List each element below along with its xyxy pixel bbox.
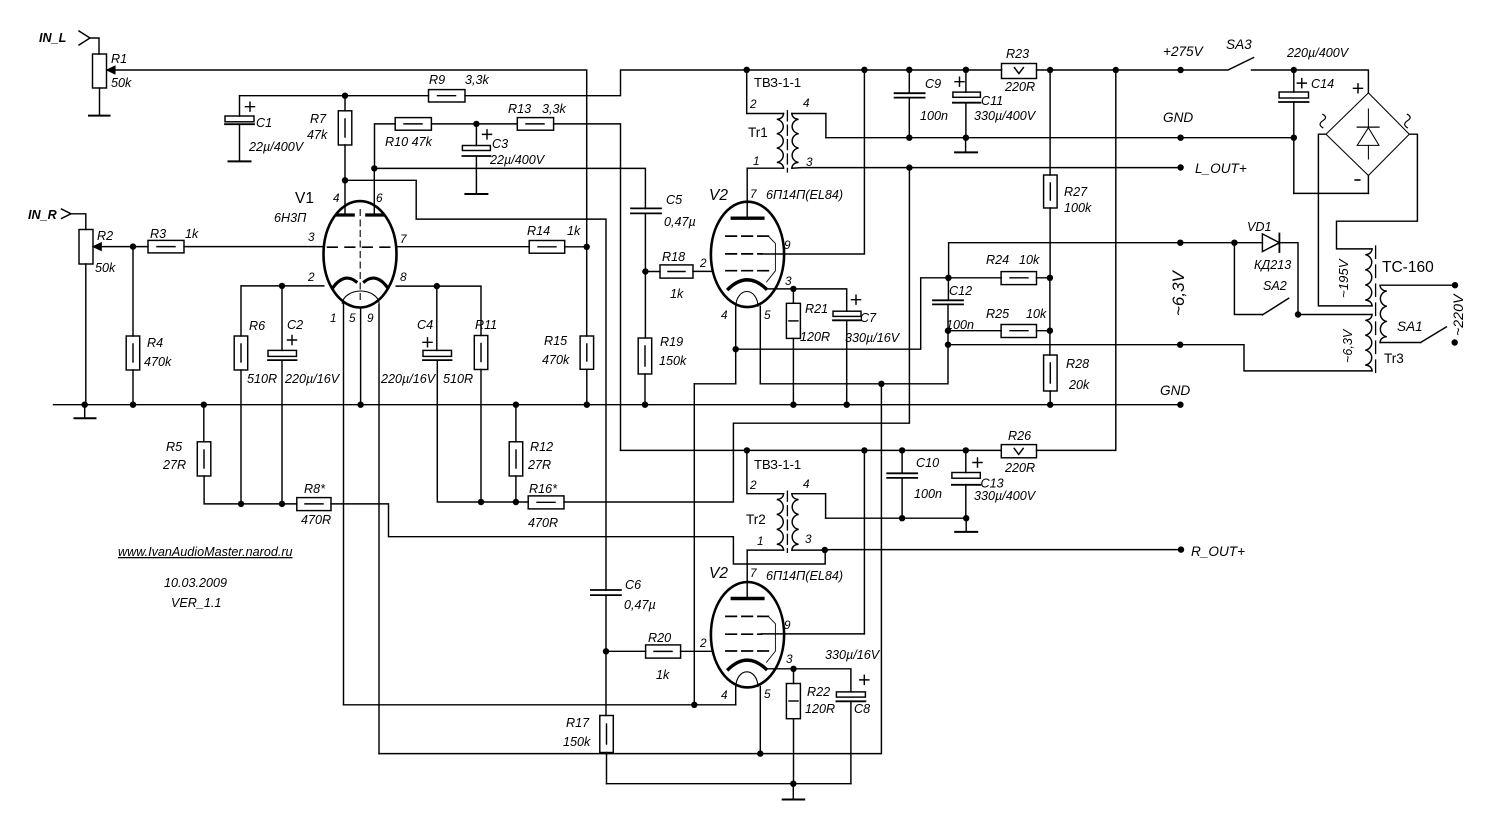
Tr1 pin3 lead L_OUT line: [792, 167, 1181, 170]
node R18 left / C5: [642, 268, 648, 274]
node C2 top: [279, 283, 285, 289]
wire R5 bottom to feedback line: [204, 476, 297, 504]
wire C10 leads: [901, 450, 903, 518]
wire bridge AC1 down to Tr3: [1318, 134, 1372, 306]
node gndline GND terminal: [1177, 135, 1183, 141]
svg-text:20k: 20k: [1068, 378, 1090, 392]
wire V1 pin9 heater down: [378, 305, 380, 754]
svg-text:R20: R20: [648, 631, 671, 645]
svg-text:220R: 220R: [1004, 80, 1035, 94]
svg-text:R23: R23: [1006, 47, 1029, 61]
wire C14 leads: [1293, 70, 1295, 193]
node rail C14: [1291, 67, 1297, 73]
svg-text:R16*: R16*: [529, 482, 558, 496]
node heater riser: [878, 381, 884, 387]
node SA1 top terminal: [1452, 282, 1458, 288]
svg-text:4: 4: [721, 308, 728, 322]
svg-text:0,47µ: 0,47µ: [624, 598, 656, 612]
svg-text:6П14П(EL84): 6П14П(EL84): [766, 569, 843, 583]
node rail +275V terminal: [1177, 67, 1183, 73]
resistor R10: [395, 118, 431, 131]
capacitor C4 (electrolytic): [423, 350, 452, 356]
svg-text:510R: 510R: [247, 372, 277, 386]
svg-text:27R: 27R: [527, 458, 551, 472]
node rail C9: [906, 67, 912, 73]
resistor R5: [203, 405, 205, 442]
svg-text:V2: V2: [709, 565, 728, 582]
wire R13 right down to Tr2 supply line: [554, 124, 621, 451]
Tr3 core dashed: [1375, 246, 1377, 374]
V2 lower beam plate line: [767, 616, 776, 662]
node heater bottom line left: [945, 342, 951, 348]
svg-text:510R: 510R: [443, 372, 473, 386]
heater wire pin5 segment right: [760, 345, 948, 384]
node Tr2 pin3 feedback: [822, 547, 828, 553]
wire heater column down to V1 pin1 line: [693, 384, 695, 705]
svg-text:~220V: ~220V: [1451, 293, 1467, 336]
ground below C1: [229, 160, 251, 162]
V2 lower pin5 heater lead: [759, 687, 761, 754]
node bus R5: [201, 402, 207, 408]
node bus R15: [584, 402, 590, 408]
svg-text:C8: C8: [854, 702, 870, 716]
svg-text:R27: R27: [1064, 185, 1088, 199]
svg-text:R2: R2: [97, 229, 113, 243]
svg-text:2: 2: [749, 478, 757, 492]
Tr2 secondary coil: [792, 494, 799, 550]
svg-text:R22: R22: [807, 685, 830, 699]
wire R7 bottom node jog to C6 column: [345, 145, 606, 590]
wire IN_R to R2 top: [71, 214, 86, 230]
svg-text:3: 3: [805, 532, 812, 546]
node bus GND terminal: [1177, 402, 1183, 408]
svg-text:GND: GND: [1163, 110, 1193, 125]
ground symbol left end of bus: [84, 405, 86, 418]
resistor R25: [1001, 325, 1036, 338]
svg-text:R11: R11: [475, 318, 497, 332]
svg-text:4: 4: [333, 191, 340, 205]
svg-text:10k: 10k: [1026, 307, 1047, 321]
node rail pin9 riser: [861, 67, 867, 73]
V2 lower anode bar: [732, 597, 763, 600]
node R20 left / C6: [603, 648, 609, 654]
node heater bottom terminal: [1177, 342, 1183, 348]
bridge rectifier diamond: [1326, 93, 1409, 176]
resistor R27: [1049, 70, 1051, 175]
V2 upper anode lead to Tr1 pin1: [746, 168, 748, 218]
input connector IN_R: [62, 209, 72, 219]
ground below C3: [465, 193, 487, 195]
svg-text:C10: C10: [916, 456, 939, 470]
capacitor C8 (electrolytic): [836, 692, 865, 697]
bridge minus stem: [1367, 176, 1369, 194]
svg-text:1k: 1k: [567, 224, 581, 238]
V1 cathode arc left: [333, 278, 356, 287]
svg-text:1k: 1k: [656, 668, 670, 682]
ground symbol bottom center: [792, 784, 794, 799]
svg-text:1k: 1k: [185, 227, 199, 241]
wire R2 wiper to R3 with R4 tap: [94, 246, 149, 248]
node feedback R11: [478, 499, 484, 505]
resistor R6: [234, 336, 248, 370]
Tr2 core dashed: [786, 491, 788, 552]
svg-text:4: 4: [721, 688, 728, 702]
node bus R19: [642, 402, 648, 408]
resistor R22: [793, 669, 795, 684]
Tr1 pin4 lead to GND line: [792, 114, 826, 138]
node R25 left: [945, 328, 951, 334]
capacitor C14 (electrolytic): [1279, 92, 1308, 98]
node bus C7: [844, 402, 850, 408]
heater line V1 pin1 to V2 lower pin4: [344, 704, 736, 706]
resistor R28: [1044, 355, 1058, 391]
wire Tr3 primary bottom to SA1: [1380, 342, 1421, 344]
resistor R14: [529, 241, 565, 254]
svg-text:Tr2: Tr2: [746, 512, 766, 527]
wire R19 bottom to bus: [644, 374, 646, 405]
node ground R22: [790, 781, 796, 787]
wire R12 bottom to R16 line: [515, 476, 517, 502]
svg-text:3,3k: 3,3k: [542, 102, 567, 116]
Tr1 primary coil: [777, 114, 784, 169]
wire R22 bottom to ground line: [793, 719, 795, 784]
wire R17 bottom to bottom ground line: [606, 753, 608, 784]
svg-text:50k: 50k: [111, 76, 132, 90]
V2 upper cathode arc: [728, 280, 766, 289]
Tr2 primary coil: [777, 494, 784, 550]
wire R18 right to V2 grid: [693, 270, 711, 272]
svg-text:+275V: +275V: [1163, 44, 1205, 59]
capacitor C10: [887, 472, 917, 474]
node rail R27: [1047, 67, 1053, 73]
resistor R21: [792, 289, 794, 303]
wire R1 wiper line to x586 vertical down to R15: [107, 70, 587, 336]
svg-text:0,47µ: 0,47µ: [664, 215, 696, 229]
svg-text:150k: 150k: [659, 354, 687, 368]
svg-text:R_OUT+: R_OUT+: [1191, 544, 1245, 559]
switch SA2: [1234, 243, 1262, 315]
pentode V2 lower envelope: [711, 582, 784, 687]
svg-text:50k: 50k: [95, 261, 116, 275]
wire R7 top to supply node: [344, 96, 346, 111]
svg-text:V1: V1: [295, 190, 314, 207]
svg-text:R21: R21: [805, 302, 828, 316]
V2 upper cathode pin3 wire to R21/C7: [766, 289, 847, 311]
node R24 right: [1047, 275, 1053, 281]
svg-text:6П14П(EL84): 6П14П(EL84): [766, 188, 843, 202]
node rail C11: [963, 67, 969, 73]
node C3 top: [473, 121, 479, 127]
svg-text:5: 5: [764, 308, 771, 322]
bottom ground line R17/R22/C8: [607, 783, 851, 785]
svg-text:100n: 100n: [914, 487, 942, 501]
node feedback C2: [279, 501, 285, 507]
svg-text:7: 7: [400, 232, 407, 246]
svg-text:330µ/400V: 330µ/400V: [974, 109, 1037, 123]
svg-text:R13: R13: [508, 102, 531, 116]
svg-text:470R: 470R: [528, 516, 558, 530]
Tr3 HV winding 195V: [1365, 249, 1372, 306]
resistor R15: [580, 336, 594, 369]
wire R28 bottom to bus: [1049, 391, 1051, 405]
svg-text:10k: 10k: [1019, 253, 1040, 267]
wire R4 bottom to bus: [132, 370, 134, 405]
svg-text:R7: R7: [310, 112, 327, 126]
svg-text:2: 2: [699, 256, 707, 270]
svg-text:120R: 120R: [800, 330, 830, 344]
svg-text:L_OUT+: L_OUT+: [1195, 161, 1247, 176]
svg-text:2: 2: [749, 97, 757, 111]
svg-text:C9: C9: [925, 77, 941, 91]
V2 lower anode lead: [746, 550, 748, 598]
V2 lower screen pin9 riser: [863, 450, 865, 634]
svg-text:9: 9: [784, 238, 791, 252]
V2 upper pin4 heater lead: [735, 306, 737, 383]
wire R18 left to C5 column: [645, 271, 660, 273]
svg-text:470k: 470k: [542, 353, 570, 367]
node L_OUT junction: [906, 164, 912, 170]
Tr1 pin1 lead to V2 anode: [747, 167, 783, 169]
V2 lower grid rows dashed: [726, 615, 768, 617]
wire C11 leads: [965, 70, 967, 138]
bridge AC mark left: [1320, 114, 1326, 128]
node heater line V2 lower pin4: [691, 702, 697, 708]
svg-text:ТС-160: ТС-160: [1382, 259, 1434, 276]
svg-text:R28: R28: [1066, 357, 1089, 371]
svg-text:3: 3: [786, 652, 793, 666]
wire Tr3 primary top to 220V terminal: [1380, 284, 1455, 286]
wire R2 bottom to ground bus: [85, 264, 87, 405]
svg-text:C6: C6: [625, 578, 641, 592]
svg-text:C11: C11: [981, 94, 1003, 108]
svg-text:GND: GND: [1160, 383, 1190, 398]
node C4 top: [434, 283, 440, 289]
wire SA2 to Tr3 6.3V top: [1298, 314, 1372, 316]
V2 lower cathode pin3 wire to R22/C8: [766, 669, 851, 692]
Tr2 ground return line: [826, 517, 967, 519]
node SA2 drop: [1231, 240, 1237, 246]
V2 upper grid rows dashed: [726, 235, 768, 237]
Tr3 heater winding 6.3V: [1365, 315, 1372, 371]
svg-text:5: 5: [764, 687, 771, 701]
node C13 bottom: [963, 515, 969, 521]
svg-text:~195V: ~195V: [1336, 258, 1351, 298]
resistor R26: [1001, 445, 1036, 458]
svg-text:100n: 100n: [946, 318, 974, 332]
GND line top: [826, 137, 1294, 139]
svg-text:2: 2: [307, 270, 315, 284]
node gndline C9: [906, 135, 912, 141]
node Tr2 line pin9: [861, 447, 867, 453]
wire C5 bottom to R18 node to R19: [644, 213, 646, 338]
node L_OUT terminal: [1177, 164, 1183, 170]
node R14 right: [584, 244, 590, 250]
node R10 left / pin6: [371, 165, 377, 171]
svg-text:КД213: КД213: [1254, 258, 1291, 272]
svg-text:1k: 1k: [670, 287, 684, 301]
wire V1 pin1 heater down: [343, 304, 345, 705]
wire C9 leads: [908, 70, 910, 138]
wire IN_L to R1 top: [90, 38, 99, 54]
svg-text:C5: C5: [666, 193, 683, 207]
ground below R1: [89, 115, 110, 117]
wire R21 bottom to bus: [792, 338, 794, 404]
wire R11 bottom to R16 line: [480, 370, 482, 503]
heater line V1 pin9 to riser: [379, 384, 881, 754]
wire V1 pin7 to R14: [396, 246, 529, 248]
node bus R12: [513, 402, 519, 408]
resistor R20: [606, 650, 646, 652]
wire R15 bottom to bus: [586, 369, 588, 404]
wire C7 bottom to bus: [846, 320, 848, 404]
svg-text:4: 4: [803, 96, 810, 110]
node SA2 right: [1295, 311, 1301, 317]
Tr2 pin2 lead: [747, 450, 784, 493]
input connector IN_L: [79, 31, 90, 45]
svg-text:C14: C14: [1311, 77, 1334, 91]
svg-text:C3: C3: [492, 137, 508, 151]
svg-text:330µ/16V: 330µ/16V: [825, 648, 881, 662]
svg-text:8: 8: [400, 270, 407, 284]
resistor R23: [1002, 64, 1037, 79]
svg-text:R9: R9: [429, 73, 445, 87]
svg-text:ТВЗ-1-1: ТВЗ-1-1: [754, 75, 801, 90]
ground below C13: [965, 518, 967, 531]
svg-text:R1: R1: [111, 52, 127, 66]
V2 lower cathode arc: [728, 660, 766, 669]
resistor R4: [132, 247, 134, 336]
node R24 left: [945, 275, 951, 281]
wire R6 top to pin2 line: [241, 286, 324, 336]
V2 lower heater arc: [736, 672, 758, 687]
wire bridge AC2 down to Tr3: [1337, 134, 1418, 249]
V2 upper pin5 heater lead: [759, 306, 761, 384]
svg-text:~6,3V: ~6,3V: [1341, 328, 1355, 363]
V1 heater arc: [342, 291, 379, 303]
resistor R17: [600, 716, 614, 753]
wire R24/R25 right column to R28: [1049, 278, 1051, 355]
node bus R21: [790, 402, 796, 408]
wire R16* right up to L_OUT line: [564, 168, 909, 502]
node C10 bottom: [899, 515, 905, 521]
wire R10 left down to pin6 node: [375, 124, 396, 168]
svg-text:27R: 27R: [162, 458, 186, 472]
wire C12 leads: [947, 278, 949, 345]
wire C13 leads: [965, 450, 967, 518]
node C13 top: [963, 447, 969, 453]
node bus V1 pin5: [357, 402, 363, 408]
svg-text:C12: C12: [949, 284, 972, 298]
svg-text:C7: C7: [860, 311, 877, 325]
V2 lower pin4 heater lead: [735, 687, 737, 705]
node heater top terminal: [1177, 240, 1183, 246]
svg-text:R10 47k: R10 47k: [385, 135, 433, 149]
wire R6 bottom to feedback line: [240, 370, 242, 504]
node R2 wiper / R4: [130, 243, 136, 249]
node gndline C14 minus: [1291, 135, 1297, 141]
wire V1 pin8 cathode to C4/R11: [396, 286, 481, 335]
Tr1 secondary coil: [792, 114, 799, 169]
svg-text:100n: 100n: [920, 109, 948, 123]
capacitor C12: [933, 299, 963, 301]
svg-text:220R: 220R: [1004, 461, 1035, 475]
svg-text:330µ/400V: 330µ/400V: [974, 489, 1037, 503]
svg-text:IN_L: IN_L: [39, 31, 66, 45]
node bus R2: [82, 402, 88, 408]
svg-text:100k: 100k: [1064, 201, 1092, 215]
node V2 lower cathode: [790, 666, 796, 672]
svg-text:R17: R17: [566, 716, 590, 730]
wire C6 bottom to R20 node to R17: [605, 595, 607, 715]
svg-text:R15: R15: [544, 334, 568, 348]
svg-text:7: 7: [750, 187, 757, 201]
Tr1 pin2 lead from B+ rail: [747, 70, 784, 114]
V1 anode bar pin4: [337, 213, 353, 216]
node bus R28: [1047, 402, 1053, 408]
resistor R9: [429, 90, 466, 102]
switch SA3: [1229, 58, 1254, 70]
svg-text:150k: 150k: [563, 735, 591, 749]
Tr1 core dashed: [786, 111, 788, 172]
svg-text:ТВЗ-1-1: ТВЗ-1-1: [754, 457, 801, 472]
B+ rail R23 to SA3: [1037, 69, 1228, 71]
wire R14 right to x586 vertical: [565, 246, 587, 248]
svg-text:R6: R6: [249, 319, 265, 333]
svg-text:1: 1: [753, 154, 760, 168]
svg-text:3: 3: [806, 155, 813, 169]
resistor R18: [660, 265, 693, 278]
node feedback R12: [513, 499, 519, 505]
bridge AC mark right: [1405, 114, 1411, 128]
svg-text:3,3k: 3,3k: [465, 73, 490, 87]
wire R9 right jog up to B+ rail: [465, 70, 1002, 96]
ground below C11: [965, 138, 967, 152]
svg-text:2: 2: [699, 636, 707, 650]
resistor R7: [338, 111, 352, 145]
svg-text:3: 3: [308, 230, 315, 244]
Tr2 supply line from R13: [621, 449, 1002, 451]
svg-text:47k: 47k: [307, 128, 328, 142]
wire C14 bottom to bridge minus: [1294, 192, 1369, 194]
capacitor C6: [591, 589, 621, 591]
node V2 upper cathode: [790, 286, 796, 292]
wire R1 bottom to ground: [99, 88, 101, 115]
node rail Tr1 pin2: [744, 67, 750, 73]
capacitor C2 (electrolytic): [268, 350, 297, 356]
capacitor C5: [631, 207, 661, 209]
switch SA1: [1421, 327, 1447, 343]
V1 anode bar pin6: [367, 213, 383, 216]
V2 upper heater arc: [736, 291, 758, 306]
V2 upper anode bar: [732, 216, 763, 219]
V1 grid dashed row: [328, 246, 393, 248]
svg-text:SA2: SA2: [1263, 279, 1287, 293]
svg-text:7: 7: [750, 566, 757, 580]
node heater pin4: [733, 346, 739, 352]
wire V1 pin6 anode to R10 node: [373, 168, 375, 215]
node R7 top supply: [342, 93, 348, 99]
wire R20 right to V2 lower grid: [681, 650, 712, 652]
node R25 right: [1047, 328, 1053, 334]
resistor R12: [515, 405, 517, 442]
svg-text:~6,3V: ~6,3V: [1169, 269, 1188, 316]
svg-text:220µ/16V: 220µ/16V: [284, 372, 341, 386]
wire R10 to C3 to R13: [431, 123, 517, 125]
svg-text:R26: R26: [1008, 429, 1031, 443]
wire SA3 to C14 to bridge: [1252, 70, 1369, 93]
R26 supply line: [1037, 70, 1116, 450]
ground bus: [54, 404, 1181, 406]
